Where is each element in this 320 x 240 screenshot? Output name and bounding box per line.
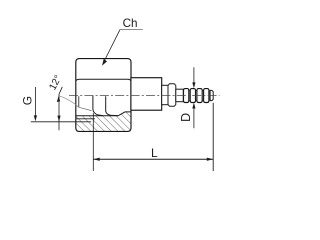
12deg leader from text [59, 87, 62, 94]
thread major line [76, 118, 95, 120]
internal bore: entry chamfer vertical [78, 96, 80, 107]
shaft [176, 89, 184, 102]
svg-text:L: L [151, 146, 158, 160]
svg-text:Ch: Ch [123, 17, 138, 30]
barb tooth 2 [190, 89, 195, 103]
L extension line right [212, 103, 214, 171]
neck [162, 85, 168, 104]
12deg arrow down at thread line [57, 116, 60, 122]
seat face + fillet [93, 96, 103, 116]
D upper arrow [192, 82, 195, 88]
bore bottom line [76, 115, 118, 117]
L extension line left [92, 113, 94, 171]
G dimension line [34, 87, 36, 120]
svg-text:G: G [20, 96, 34, 105]
G dimension arrow [34, 115, 37, 121]
L dimension line [94, 158, 214, 160]
Ch leader [104, 30, 121, 63]
barb root lines in gaps [189, 91, 204, 101]
12deg leader vertical [58, 94, 60, 131]
D dimension lower line [193, 105, 195, 129]
barb tooth 1 [184, 89, 189, 103]
svg-text:D: D [179, 113, 193, 122]
cavity second wall [106, 96, 118, 116]
L left arrow [94, 158, 100, 161]
Ch underline [120, 29, 143, 31]
barb tooth 3 [197, 89, 202, 103]
12deg arrow up at cone line [57, 96, 60, 102]
hex top facet line [76, 79, 131, 81]
hex body outline [76, 59, 131, 132]
ring flange [168, 84, 176, 107]
tip piece [210, 90, 213, 100]
hatched section (lower half of hex body) [76, 112, 131, 131]
centerline [69, 95, 220, 97]
D dimension upper line [193, 67, 195, 86]
collar cylinder [131, 78, 162, 111]
barb tooth 4 [204, 89, 209, 103]
cone surface line [79, 107, 92, 110]
G thread reference line [31, 121, 91, 123]
Ch leader arrow [102, 59, 107, 66]
cavity rise to collar bore [118, 112, 131, 116]
svg-text:12°: 12° [47, 74, 64, 93]
cone surface extension (12 deg) faint curve [59, 96, 79, 108]
D lower arrow [192, 103, 195, 109]
L right arrow [207, 158, 213, 161]
